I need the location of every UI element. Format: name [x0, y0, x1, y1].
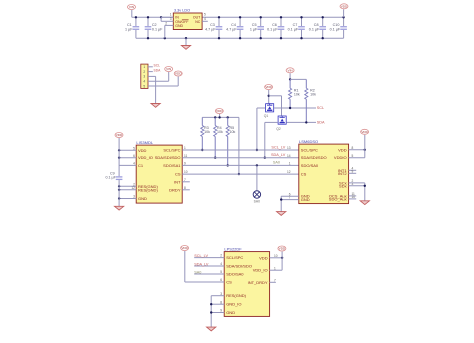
svg-text:SDA/SDI/SDO: SDA/SDI/SDO [226, 264, 252, 269]
svg-text:4: 4 [133, 162, 135, 166]
svg-text:SCL/SPC: SCL/SPC [163, 148, 180, 153]
svg-text:NC: NC [195, 20, 201, 24]
svg-text:5: 5 [143, 84, 145, 88]
svg-text:DRDY: DRDY [169, 187, 181, 192]
svg-text:4.7 µF: 4.7 µF [205, 27, 216, 31]
svg-text:10k: 10k [310, 93, 316, 97]
svg-text:VIN: VIN [129, 5, 134, 9]
svg-text:VDD: VDD [116, 133, 123, 137]
svg-text:3.3v LDO: 3.3v LDO [174, 9, 190, 13]
svg-text:10k: 10k [294, 93, 300, 97]
svg-text:SDA: SDA [154, 68, 162, 72]
svg-text:SDO/SA1: SDO/SA1 [163, 163, 181, 168]
svg-text:SDO_Aux: SDO_Aux [329, 196, 347, 201]
svg-text:SA0: SA0 [254, 200, 260, 204]
svg-text:VDDIO: VDDIO [334, 155, 347, 160]
svg-text:0.1 µF: 0.1 µF [288, 27, 299, 31]
svg-text:8: 8 [352, 146, 354, 150]
svg-text:2: 2 [165, 21, 167, 25]
svg-text:GND: GND [301, 197, 310, 202]
svg-text:CS: CS [301, 172, 307, 177]
svg-text:12: 12 [287, 170, 291, 174]
svg-text:0.1 µF: 0.1 µF [152, 27, 163, 31]
svg-text:10k: 10k [230, 130, 236, 134]
svg-text:7: 7 [184, 178, 186, 182]
svg-text:8: 8 [184, 186, 186, 190]
svg-text:3: 3 [170, 17, 172, 21]
svg-text:SCL_LV: SCL_LV [271, 145, 285, 149]
svg-text:9: 9 [352, 169, 354, 173]
svg-text:Q1: Q1 [264, 114, 269, 118]
svg-text:SCL: SCL [154, 64, 161, 68]
svg-text:INT2: INT2 [338, 171, 347, 176]
svg-text:VDD_IO: VDD_IO [138, 155, 153, 160]
svg-text:VDD: VDD [181, 246, 188, 250]
svg-text:1: 1 [289, 162, 291, 166]
svg-text:VIN: VIN [288, 69, 293, 73]
svg-text:SCL_LV: SCL_LV [194, 254, 208, 258]
svg-text:14: 14 [287, 154, 291, 158]
svg-text:12: 12 [131, 186, 135, 190]
svg-text:CS: CS [175, 172, 181, 177]
svg-text:SCL/SPC: SCL/SPC [226, 255, 243, 260]
svg-text:4: 4 [204, 17, 206, 21]
svg-text:10k: 10k [217, 130, 223, 134]
svg-text:0.1 µF: 0.1 µF [309, 27, 320, 31]
svg-text:8: 8 [220, 300, 222, 304]
svg-text:10: 10 [184, 170, 188, 174]
svg-text:C1: C1 [138, 163, 144, 168]
svg-text:VDD: VDD [265, 85, 272, 89]
svg-text:VIN: VIN [166, 67, 171, 71]
svg-text:3: 3 [143, 75, 145, 79]
svg-text:13: 13 [287, 146, 291, 150]
svg-text:SDA: SDA [317, 121, 325, 125]
svg-text:SA0: SA0 [194, 270, 201, 274]
svg-text:LSM6DSO: LSM6DSO [299, 139, 318, 144]
svg-text:RES(GND): RES(GND) [138, 187, 158, 192]
svg-text:GND_IO: GND_IO [226, 302, 241, 307]
svg-text:VDD: VDD [338, 147, 347, 152]
svg-text:VDD: VDD [279, 247, 286, 251]
svg-text:3: 3 [220, 292, 222, 296]
svg-text:1 µF: 1 µF [250, 27, 258, 31]
svg-text:SDA_LV: SDA_LV [194, 262, 209, 266]
svg-text:VDD: VDD [259, 255, 268, 260]
svg-text:INT: INT [174, 179, 181, 184]
svg-text:0.1 µF: 0.1 µF [330, 27, 341, 31]
svg-text:0.1 µF: 0.1 µF [106, 176, 117, 180]
svg-text:1 µF: 1 µF [125, 27, 133, 31]
svg-text:CS: CS [226, 280, 232, 285]
svg-text:1: 1 [170, 13, 172, 17]
svg-text:2: 2 [143, 70, 145, 74]
svg-text:1: 1 [274, 266, 276, 270]
svg-text:SA0: SA0 [273, 161, 280, 165]
svg-text:LPS22DF: LPS22DF [224, 246, 242, 251]
svg-text:GND: GND [175, 24, 183, 28]
svg-text:5: 5 [133, 146, 135, 150]
svg-text:VDD: VDD [138, 148, 147, 153]
svg-text:VDD: VDD [175, 72, 182, 76]
svg-text:SDx: SDx [339, 183, 347, 188]
svg-text:SCL/SPC: SCL/SPC [301, 148, 318, 153]
svg-text:SDA/SDI/SDO: SDA/SDI/SDO [301, 155, 327, 160]
svg-text:0.1 µF: 0.1 µF [267, 27, 278, 31]
svg-text:INT_DRDY: INT_DRDY [248, 280, 268, 285]
svg-text:LIS3MDL: LIS3MDL [136, 140, 153, 145]
svg-text:SCL: SCL [317, 106, 324, 110]
svg-text:VDD: VDD [361, 130, 368, 134]
svg-text:4.7 µF: 4.7 µF [226, 27, 237, 31]
svg-text:5: 5 [204, 13, 206, 17]
svg-text:6: 6 [133, 154, 135, 158]
svg-text:SDA/SDI/SDO: SDA/SDI/SDO [155, 155, 181, 160]
svg-text:GND: GND [226, 310, 235, 315]
svg-text:RES(GND): RES(GND) [226, 293, 246, 298]
svg-text:1: 1 [143, 65, 145, 69]
svg-text:Q2: Q2 [276, 127, 281, 131]
svg-text:SDO/SA0: SDO/SA0 [301, 163, 319, 168]
svg-text:GND: GND [138, 196, 147, 201]
svg-text:VDD_IO: VDD_IO [253, 268, 268, 273]
svg-text:VDD: VDD [216, 109, 223, 113]
svg-text:SDO/SA0: SDO/SA0 [226, 272, 244, 277]
svg-text:10k: 10k [204, 130, 210, 134]
svg-text:3: 3 [133, 195, 135, 199]
svg-text:SDA_LV: SDA_LV [271, 153, 286, 157]
svg-text:VDD: VDD [341, 5, 348, 9]
svg-text:4: 4 [143, 80, 145, 84]
